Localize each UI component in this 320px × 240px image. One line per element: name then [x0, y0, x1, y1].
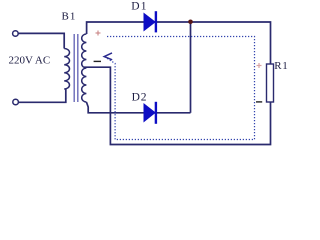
svg-text:D2: D2 [132, 92, 148, 104]
svg-text:D1: D1 [131, 1, 147, 13]
svg-text:220V AC: 220V AC [9, 54, 51, 66]
svg-text:R1: R1 [274, 60, 288, 72]
svg-text:B1: B1 [62, 11, 77, 23]
